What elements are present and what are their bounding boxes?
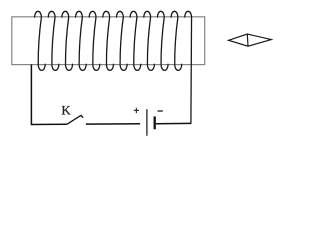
battery positive plate (long) <box>146 109 148 136</box>
coil turn 8 <box>130 11 141 70</box>
wire: switch to battery positive side <box>86 123 140 125</box>
label + (positive terminal) <box>134 108 139 113</box>
coil turn 2 <box>48 11 59 70</box>
switch K blade (open knife switch) <box>67 115 83 124</box>
svg-text:K: K <box>61 102 71 117</box>
battery negative plate (short, thick) <box>154 116 156 129</box>
needle pivot line <box>246 34 249 46</box>
wire: battery negative to bottom-right corner joining coil lead <box>156 122 191 124</box>
coil turn 7 <box>117 11 128 70</box>
coil turn 6 <box>103 11 114 70</box>
label - (negative terminal) <box>158 110 163 112</box>
coil turn 9 <box>144 11 155 70</box>
compass needle (rhombus) beside solenoid <box>229 34 272 46</box>
coil turn 11 <box>171 11 182 70</box>
coil turn 1 <box>35 11 46 70</box>
coil L1 winding <box>35 11 192 123</box>
coil turn 3 <box>62 11 73 70</box>
coil turn 5 <box>89 11 100 70</box>
coil turn 10 <box>157 11 168 70</box>
coil turn 4 <box>76 11 87 70</box>
solenoid core (iron core rectangle) <box>12 17 205 65</box>
coil turn 12 with right lead wire down to bottom wire <box>185 11 192 123</box>
wire: left lead from coil bottom edge down to corner, then to switch terminal <box>31 64 67 124</box>
